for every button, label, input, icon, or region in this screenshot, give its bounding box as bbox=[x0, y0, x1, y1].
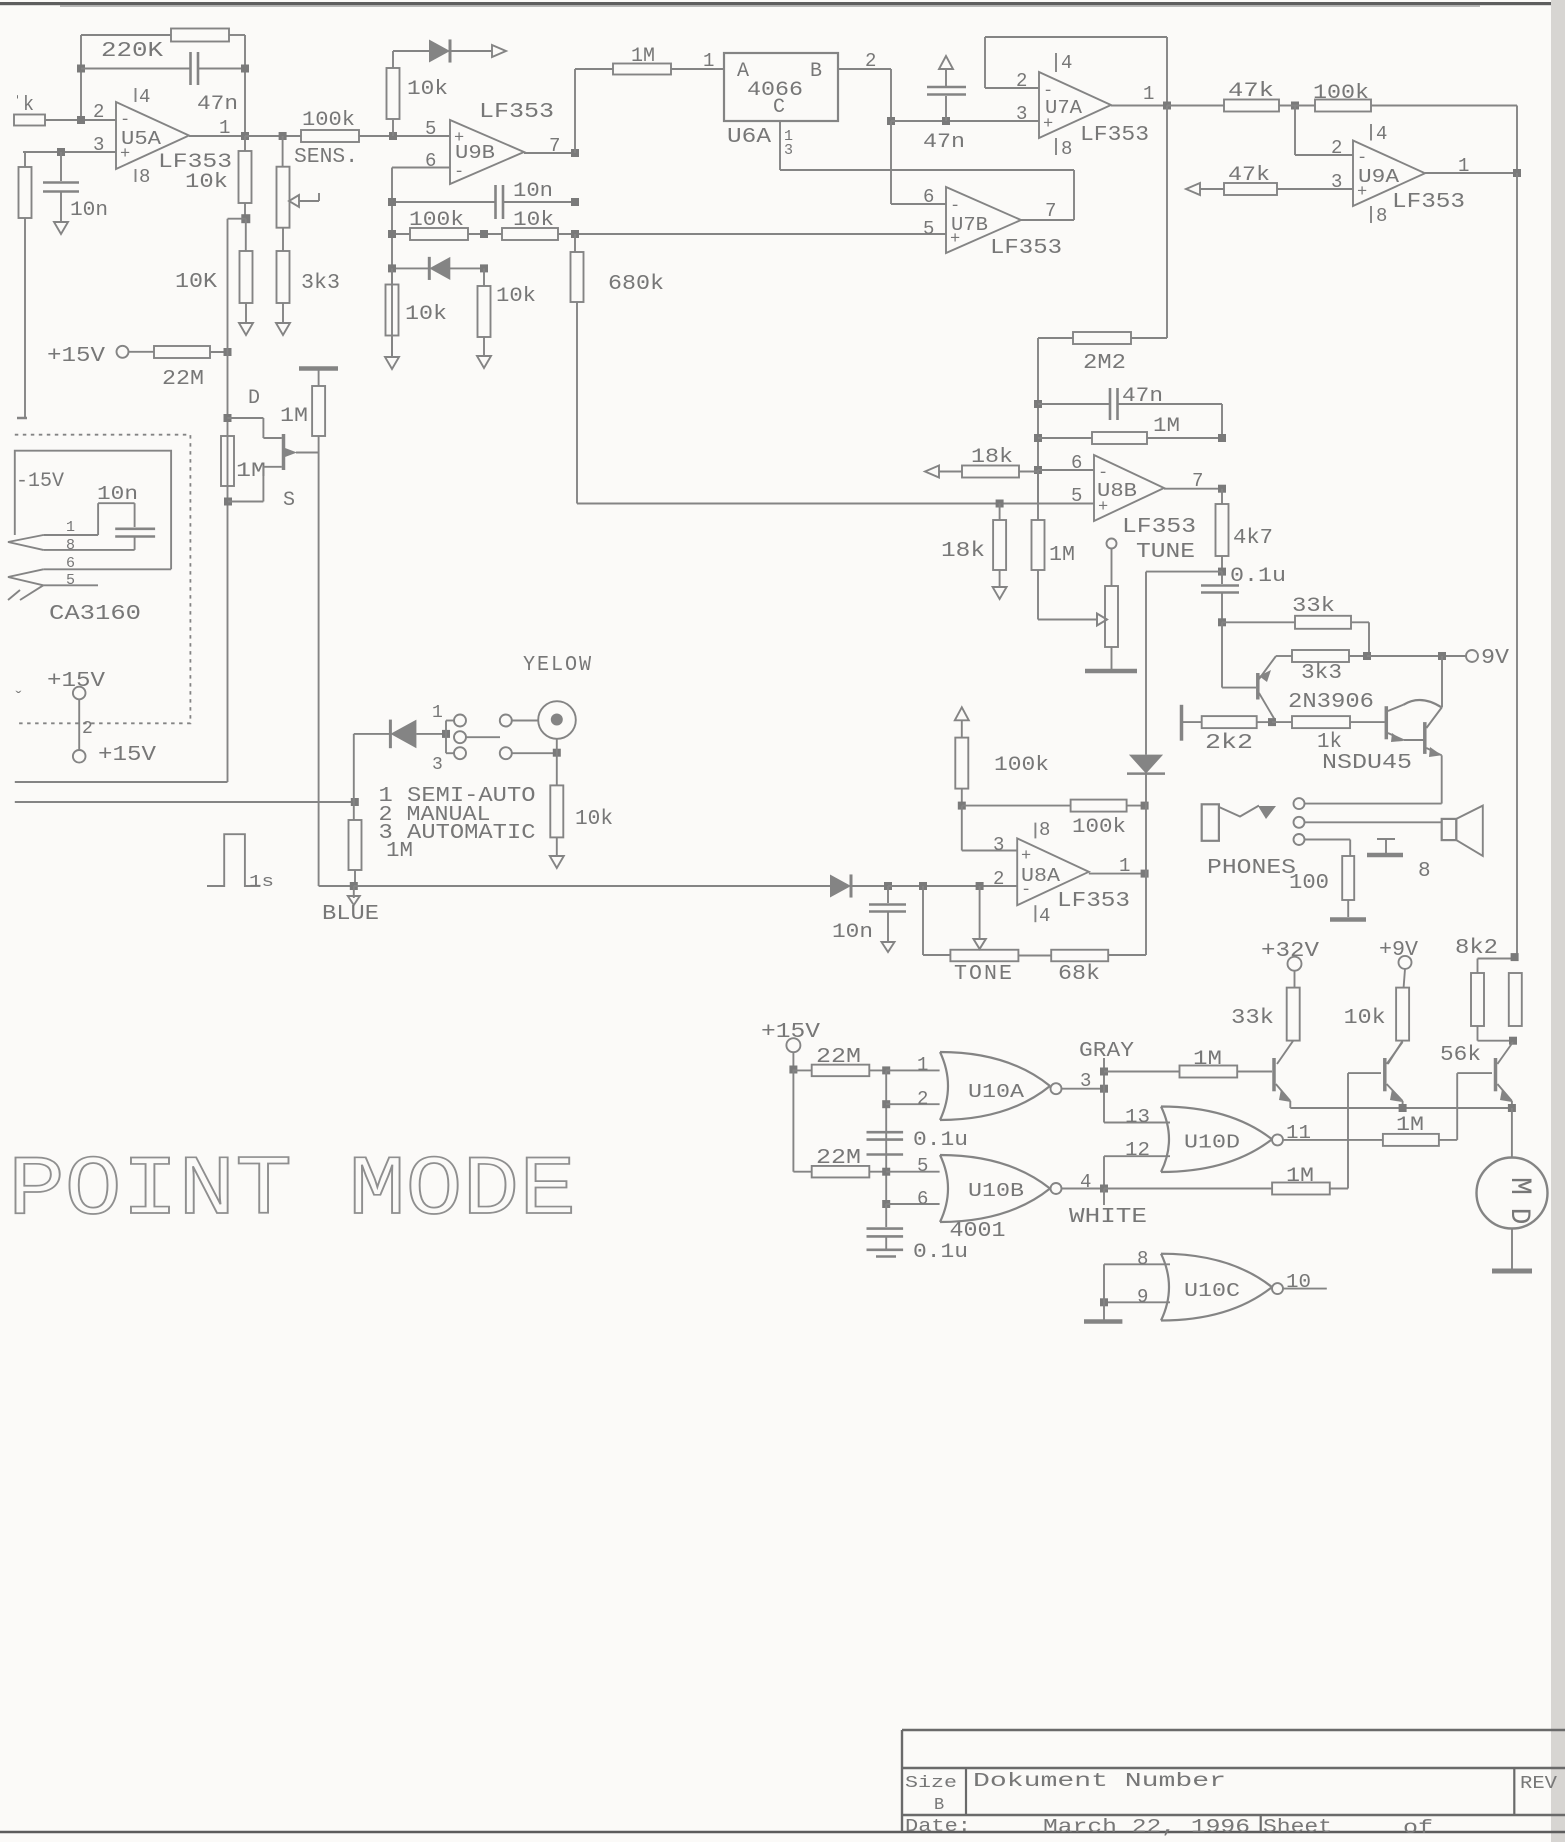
NSDU45 T2 collector bbox=[1426, 708, 1441, 729]
node junction bbox=[942, 117, 950, 125]
label 2k2 bbox=[1205, 732, 1253, 755]
label 18k bbox=[941, 540, 985, 563]
pin 8 label bbox=[66, 537, 75, 554]
wire TONE drop bbox=[923, 886, 950, 955]
svg-text:10n: 10n bbox=[97, 483, 138, 505]
node junction bbox=[1141, 870, 1149, 878]
node junction bbox=[1034, 400, 1042, 408]
svg-text:+32V: +32V bbox=[1261, 940, 1319, 963]
pot TONE arrow bbox=[974, 886, 986, 949]
wire 3k3 row bbox=[1276, 655, 1367, 657]
node junction bbox=[1268, 718, 1276, 726]
label TONE bbox=[954, 963, 1014, 986]
svg-text:100k: 100k bbox=[994, 754, 1049, 777]
node junction bbox=[884, 882, 892, 890]
wire U10C out bbox=[1283, 1288, 1327, 1290]
U5A pin 4 stub bbox=[135, 88, 137, 102]
pin 2 label bbox=[993, 868, 1004, 890]
ground bbox=[54, 222, 68, 234]
svg-text:LF353: LF353 bbox=[990, 237, 1062, 260]
wire +9V stub bbox=[1404, 969, 1405, 988]
label SENS. bbox=[294, 146, 358, 169]
label 1M bbox=[1049, 544, 1075, 567]
svg-text:4: 4 bbox=[1376, 123, 1387, 145]
label S bbox=[283, 489, 295, 512]
svg-text:10k: 10k bbox=[185, 171, 228, 194]
terminal circle bbox=[500, 747, 512, 759]
wire U8B output bbox=[1164, 488, 1222, 490]
label 10k bbox=[513, 209, 554, 232]
node junction bbox=[1508, 1104, 1516, 1112]
resistor 33k bbox=[1277, 988, 1300, 1064]
svg-text:18k: 18k bbox=[971, 446, 1013, 469]
transistor Q3 bar bbox=[1494, 1058, 1498, 1091]
label 100k bbox=[1313, 82, 1369, 105]
node junction bbox=[882, 1066, 890, 1074]
resistor 10K (second) bbox=[240, 219, 253, 323]
jack contact bbox=[1219, 806, 1259, 817]
node junction bbox=[1511, 953, 1519, 961]
svg-text:10n: 10n bbox=[70, 199, 108, 222]
svg-text:22M: 22M bbox=[816, 1046, 861, 1069]
svg-text:REV: REV bbox=[1520, 1774, 1557, 1794]
pin 6 label bbox=[923, 186, 934, 208]
label WHITE bbox=[1069, 1206, 1147, 1229]
wire U7B out loop bbox=[780, 170, 1074, 220]
pin 6 label bbox=[66, 555, 75, 572]
connector arrow left bbox=[1186, 183, 1200, 195]
U5A plus sign bbox=[120, 145, 130, 164]
wire +15V pin2 bbox=[78, 699, 80, 749]
pin 5 label bbox=[66, 572, 75, 589]
wire 47n row (U8B) bbox=[1038, 404, 1222, 438]
pin 2 label bbox=[82, 719, 93, 739]
svg-text:680k: 680k bbox=[608, 273, 664, 296]
label 100k bbox=[409, 209, 464, 232]
pin 3 label bbox=[432, 755, 443, 775]
terminal bar bbox=[1180, 705, 1184, 741]
resistor 22M (top) bbox=[793, 1065, 886, 1077]
label 1M bbox=[1153, 415, 1180, 438]
label 2M2 bbox=[1083, 352, 1126, 375]
svg-text:NSDU45: NSDU45 bbox=[1322, 752, 1412, 775]
label TUNE bbox=[1136, 541, 1195, 564]
svg-text:3: 3 bbox=[1016, 103, 1027, 125]
wire 33k row bbox=[1222, 622, 1369, 656]
label Date: bbox=[905, 1817, 971, 1837]
wire pot to 68k bbox=[1018, 955, 1051, 957]
capacitor 47n (U8B) bbox=[1110, 388, 1118, 420]
op-amp U5A bbox=[116, 102, 189, 169]
svg-text:8: 8 bbox=[1061, 138, 1072, 160]
svg-text:U10C: U10C bbox=[1184, 1280, 1240, 1302]
label 8 (ohms) bbox=[1418, 860, 1431, 883]
wire +15V stub bbox=[792, 1052, 794, 1069]
node junction bbox=[224, 414, 232, 422]
node junction bbox=[1509, 1037, 1517, 1045]
U8A minus bbox=[1021, 881, 1031, 900]
svg-text:6: 6 bbox=[1071, 452, 1082, 474]
svg-text:10k: 10k bbox=[405, 303, 447, 326]
resistor 100k bbox=[410, 228, 468, 240]
pin 11 label bbox=[1286, 1122, 1311, 1144]
node junction bbox=[1291, 102, 1299, 110]
label Sheet bbox=[1263, 1816, 1332, 1838]
wire source link bbox=[228, 467, 282, 502]
label U10D bbox=[1184, 1132, 1240, 1154]
Q1 emitter bbox=[1276, 1084, 1291, 1108]
wire rail to 1M bbox=[575, 69, 613, 153]
svg-text:of: of bbox=[1403, 1817, 1433, 1839]
resistor 33k bbox=[1295, 616, 1351, 629]
FET gate arrow bbox=[285, 448, 319, 457]
transistor NSDU45 bar2 bbox=[1423, 722, 1427, 754]
svg-text:0.1u: 0.1u bbox=[913, 1129, 968, 1152]
resistor 56k (rail) bbox=[1509, 973, 1522, 1026]
svg-text:8: 8 bbox=[1039, 819, 1050, 841]
label 1M bbox=[631, 45, 655, 68]
svg-text:10n: 10n bbox=[513, 180, 553, 203]
connector arrow left (18k) bbox=[925, 466, 939, 478]
U9A pin8 stub bbox=[1370, 206, 1372, 223]
svg-text:100k: 100k bbox=[1313, 82, 1369, 105]
terminal circle TUNE bbox=[1107, 539, 1117, 549]
capacitor 47n (to arrow) bbox=[927, 70, 966, 121]
wire pin3 link bbox=[962, 806, 1017, 851]
label LF353 (U9B) bbox=[479, 101, 554, 124]
svg-text:Size: Size bbox=[905, 1774, 957, 1793]
svg-text:YELOW: YELOW bbox=[523, 654, 593, 677]
left chain foot bbox=[17, 417, 27, 420]
svg-text:U8B: U8B bbox=[1097, 480, 1137, 502]
svg-text:2k2: 2k2 bbox=[1205, 732, 1253, 755]
svg-text:8: 8 bbox=[1137, 1248, 1148, 1270]
label 2N3906 bbox=[1288, 691, 1374, 714]
pin 7 label bbox=[549, 135, 560, 157]
U8B plus bbox=[1098, 498, 1108, 517]
wire 1M row bbox=[1038, 437, 1222, 439]
wire U9A output bbox=[1425, 172, 1517, 174]
svg-text:1: 1 bbox=[219, 117, 230, 139]
label LF353 (U8B) bbox=[1122, 516, 1196, 539]
ground bar (motor) bbox=[1492, 1269, 1532, 1274]
svg-text:47n: 47n bbox=[923, 131, 965, 154]
svg-text:+15V: +15V bbox=[98, 744, 156, 767]
speaker ground bbox=[1367, 839, 1403, 855]
ground bbox=[477, 356, 491, 368]
svg-text:4001: 4001 bbox=[950, 1220, 1006, 1243]
wire pole stub bbox=[466, 736, 500, 738]
svg-text:D: D bbox=[248, 387, 260, 410]
wire pin2 bbox=[886, 1103, 939, 1105]
node junction bbox=[1034, 466, 1042, 474]
pin 1 label bbox=[1143, 83, 1154, 105]
wire U10D out bbox=[1283, 1139, 1383, 1141]
svg-text:Sheet: Sheet bbox=[1263, 1816, 1332, 1838]
svg-text:7: 7 bbox=[549, 135, 560, 157]
wire rail segment bbox=[1108, 773, 1146, 955]
wire rotary down bbox=[556, 739, 558, 786]
svg-text:220K: 220K bbox=[101, 40, 163, 63]
wire pin2 U7A bbox=[985, 87, 1039, 89]
label 10k bbox=[1344, 1007, 1386, 1030]
capacitor 0.1u (bottom) bbox=[867, 1204, 904, 1257]
transistor Q1 bar bbox=[1272, 1058, 1276, 1091]
wire rail 886 bbox=[885, 1070, 887, 1204]
svg-text:6: 6 bbox=[923, 186, 934, 208]
svg-text:U9A: U9A bbox=[1358, 166, 1400, 188]
terminal circle bbox=[454, 715, 466, 727]
svg-text:C: C bbox=[773, 96, 785, 119]
svg-text:TONE: TONE bbox=[954, 963, 1014, 986]
label LF353 (U7A) bbox=[1080, 124, 1149, 147]
node junction bbox=[57, 148, 65, 156]
pin 1 label bbox=[703, 50, 714, 72]
wire 100k/10k row bbox=[392, 233, 946, 235]
label B bbox=[934, 1796, 944, 1815]
svg-text:1: 1 bbox=[66, 519, 75, 536]
svg-text:56k: 56k bbox=[1440, 1044, 1481, 1067]
transistor Q2 bar bbox=[1383, 1058, 1387, 1091]
pin 1 label bbox=[917, 1054, 928, 1076]
potentiometer SENS 3k3 top bbox=[277, 136, 290, 228]
pin 1 label bbox=[66, 519, 75, 536]
label 47k bbox=[1228, 164, 1270, 187]
4066 control stub bbox=[779, 121, 781, 170]
U9A pin4 stub bbox=[1370, 124, 1372, 141]
pin 8 label bbox=[1039, 819, 1050, 841]
speaker cone bbox=[1456, 806, 1483, 856]
node junction bbox=[976, 882, 984, 890]
node junction bbox=[224, 348, 232, 356]
label 1M bbox=[1396, 1114, 1424, 1137]
wire 680k to U8B bbox=[577, 503, 1000, 505]
wire pin13 bbox=[1104, 1122, 1170, 1124]
label 10K bbox=[175, 271, 217, 294]
label 2 MANUAL bbox=[379, 804, 491, 827]
svg-text:10k: 10k bbox=[513, 209, 554, 232]
outer box bottom bbox=[15, 781, 228, 783]
resistor 1M (gate pull) bbox=[312, 386, 325, 453]
svg-text:M: M bbox=[1502, 1177, 1536, 1195]
pin 8 label bbox=[139, 166, 150, 188]
scan right edge bbox=[1551, 0, 1565, 1842]
svg-text:100k: 100k bbox=[302, 109, 355, 132]
svg-text:B: B bbox=[810, 60, 822, 83]
pin 10 label bbox=[1286, 1271, 1311, 1293]
label 47n bbox=[923, 131, 965, 154]
wire gnd stem bbox=[1103, 1264, 1105, 1320]
U7B plus bbox=[950, 230, 960, 249]
label BLUE bbox=[322, 903, 379, 926]
U9B plus sign bbox=[454, 129, 464, 148]
terminal circle bbox=[454, 731, 466, 743]
svg-text:GRAY: GRAY bbox=[1079, 1040, 1134, 1063]
wire feedback right vertical bbox=[244, 35, 246, 136]
capacitor 10n (U9B) bbox=[496, 185, 504, 219]
svg-text:9: 9 bbox=[1137, 1286, 1148, 1308]
svg-text:2: 2 bbox=[917, 1088, 928, 1110]
svg-text:Date:: Date: bbox=[905, 1817, 971, 1837]
node junction bbox=[1163, 102, 1171, 110]
power +32V bbox=[1261, 940, 1319, 971]
power +9V bbox=[1379, 939, 1418, 969]
label U5A bbox=[121, 128, 162, 150]
wire diode to pole bbox=[416, 733, 446, 735]
resistor 10k (to diode) bbox=[387, 51, 400, 136]
node junction bbox=[1141, 802, 1149, 810]
wire pin3 row bbox=[23, 151, 116, 153]
ground bbox=[276, 323, 290, 335]
pin 8 label bbox=[1376, 205, 1387, 227]
U7A minus bbox=[1043, 82, 1053, 101]
wire 8k2 bottom bbox=[1478, 1026, 1514, 1041]
wire pin6 bbox=[886, 1203, 939, 1205]
wire U10B out bbox=[1062, 1188, 1105, 1190]
wire 10n row bbox=[392, 201, 575, 203]
NOR gate U10D bbox=[1161, 1107, 1272, 1173]
label 3 AUTOMATIC bbox=[379, 822, 536, 845]
label 680k bbox=[608, 273, 664, 296]
svg-text:1: 1 bbox=[1119, 855, 1130, 877]
wire D-rail vertical bbox=[227, 219, 229, 782]
wire diode to junction bbox=[851, 885, 888, 887]
svg-text:LF353: LF353 bbox=[1057, 890, 1130, 913]
svg-text:5: 5 bbox=[923, 218, 934, 240]
label 47k bbox=[1228, 80, 1274, 103]
svg-text:0.1u: 0.1u bbox=[913, 1241, 968, 1264]
wire diode row 2 bbox=[392, 267, 484, 269]
svg-text:U10A: U10A bbox=[968, 1081, 1025, 1103]
capacitor 0.1u bbox=[1201, 572, 1239, 623]
svg-text:U6A: U6A bbox=[727, 126, 771, 149]
label 33k bbox=[1231, 1007, 1274, 1030]
resistor 10k (right leg) bbox=[478, 268, 491, 356]
diode (to connector) bbox=[429, 39, 450, 62]
power +15V (logic) bbox=[761, 1021, 820, 1052]
node junction bbox=[1218, 485, 1226, 493]
label U10A bbox=[968, 1081, 1025, 1103]
Q2 emitter bbox=[1387, 1084, 1403, 1108]
svg-text:8: 8 bbox=[66, 537, 75, 554]
U7A plus bbox=[1043, 115, 1053, 134]
wire 47n row bbox=[891, 120, 1039, 122]
svg-text:U9B: U9B bbox=[455, 142, 495, 164]
U9A minus bbox=[1357, 149, 1367, 168]
label Size bbox=[905, 1774, 957, 1793]
svg-text:+15V: +15V bbox=[47, 670, 105, 693]
resistor 1M (rail) bbox=[221, 436, 234, 486]
power 9V terminal bbox=[1466, 650, 1478, 662]
arrow up bbox=[939, 56, 953, 69]
node junction bbox=[350, 882, 358, 890]
resistor 47k bbox=[1224, 100, 1279, 112]
resistor 3k3 bbox=[277, 228, 290, 323]
svg-text:SENS.: SENS. bbox=[294, 146, 358, 169]
resistor vertical (left chain) bbox=[19, 152, 32, 417]
svg-text:10k: 10k bbox=[407, 78, 448, 101]
label POINT MODE bbox=[8, 1144, 576, 1239]
terminal circle bbox=[454, 747, 466, 759]
svg-text:10k: 10k bbox=[1344, 1007, 1386, 1030]
wire pin5 row bbox=[43, 584, 98, 586]
pin 8 label bbox=[1137, 1248, 1148, 1270]
label 1M bbox=[1193, 1048, 1222, 1071]
label 0.1u bbox=[1230, 565, 1286, 588]
svg-text:3: 3 bbox=[432, 755, 443, 775]
transistor NSDU45 bar1 bbox=[1385, 706, 1389, 739]
node junction bbox=[1438, 652, 1446, 660]
resistor 1M bbox=[613, 64, 671, 75]
label 10k bbox=[407, 78, 448, 101]
wire drain link bbox=[228, 418, 282, 438]
wire WHITE stem bbox=[1103, 1189, 1105, 1206]
pin 6 label bbox=[917, 1188, 928, 1210]
pin 8 label bbox=[1061, 138, 1072, 160]
NSDU45 T1 collector bbox=[1388, 705, 1403, 711]
pin 2 label bbox=[1331, 137, 1342, 159]
label LF353 (U7B) bbox=[990, 237, 1062, 260]
svg-text:5: 5 bbox=[1071, 485, 1082, 507]
U7A pin4 stub bbox=[1055, 53, 1057, 72]
svg-text:LF353: LF353 bbox=[1392, 191, 1465, 214]
svg-text:12: 12 bbox=[1125, 1139, 1150, 1161]
node junction bbox=[789, 1066, 797, 1074]
node junction bbox=[241, 65, 249, 73]
svg-text:6: 6 bbox=[917, 1188, 928, 1210]
op-amp U7B bbox=[946, 187, 1021, 253]
label March 22, 1996 bbox=[1043, 1816, 1250, 1838]
wire 9V to NSDU45 bbox=[1441, 656, 1443, 708]
wire pin6 row bbox=[392, 167, 450, 169]
label U10C bbox=[1184, 1280, 1240, 1302]
label 18k bbox=[971, 446, 1013, 469]
svg-text:+15V: +15V bbox=[47, 345, 105, 368]
svg-text:POINT MODE: POINT MODE bbox=[8, 1144, 576, 1239]
pot wiper arrow (TUNE) bbox=[1097, 614, 1107, 626]
op-amp U8A bbox=[1017, 838, 1089, 905]
label 3k3 bbox=[301, 272, 340, 295]
svg-text:BLUE: BLUE bbox=[322, 903, 379, 926]
node junction bbox=[480, 264, 488, 272]
svg-text:1: 1 bbox=[703, 50, 714, 72]
wire pin5 long bbox=[393, 135, 450, 137]
potentiometer TONE bbox=[950, 950, 1018, 962]
resistor 10k (switch) bbox=[550, 785, 563, 856]
NOR gate U10A bbox=[940, 1052, 1050, 1120]
diode (feedback) bbox=[429, 257, 450, 280]
pin 6 label bbox=[425, 150, 436, 172]
label U9A bbox=[1358, 166, 1400, 188]
label 8k2 bbox=[1455, 937, 1498, 960]
wire pin9 bbox=[1104, 1301, 1170, 1303]
wire right rail bbox=[1516, 173, 1518, 957]
svg-text:Dokument Number: Dokument Number bbox=[973, 1770, 1226, 1792]
resistor 1M (U8B fb) bbox=[1092, 432, 1147, 444]
arrow up (100k) bbox=[955, 707, 969, 720]
svg-text:2: 2 bbox=[1016, 70, 1027, 92]
wire diode feed bbox=[354, 733, 390, 735]
svg-text:7: 7 bbox=[1192, 470, 1203, 492]
capacitor 0.1u (top) bbox=[867, 1132, 904, 1154]
resistor 10k (below pin1) bbox=[239, 136, 252, 219]
node junction bbox=[351, 798, 359, 806]
node junction bbox=[241, 132, 249, 140]
svg-text:+: + bbox=[1021, 847, 1031, 866]
label 33k bbox=[1292, 595, 1335, 618]
svg-text:U7A: U7A bbox=[1045, 97, 1083, 119]
pin 2 label bbox=[93, 101, 104, 123]
